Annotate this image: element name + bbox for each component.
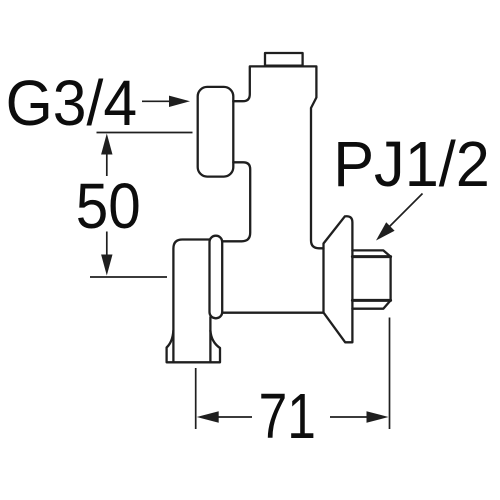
nipple top chamfer line bbox=[352, 255, 390, 258]
50 down arrowhead bbox=[101, 255, 112, 276]
PJ1/2 leader arrowhead bbox=[376, 222, 395, 240]
svg-text:G3/4: G3/4 bbox=[6, 67, 138, 139]
valve body bottom edge bbox=[222, 312, 323, 314]
svg-text:71: 71 bbox=[259, 380, 316, 452]
PJ1/2 leader line bbox=[385, 194, 423, 232]
50 bottom extension line bbox=[90, 276, 167, 278]
50 dim shaft upper bbox=[106, 153, 108, 177]
50 up arrowhead bbox=[101, 134, 112, 155]
71 dim shaft right bbox=[330, 416, 369, 418]
flange ring collar bbox=[210, 236, 223, 319]
71 left arrowhead bbox=[197, 411, 219, 423]
foot outline bbox=[167, 240, 220, 363]
G3/4 arrow shaft bbox=[142, 100, 171, 102]
foot inner right edge bbox=[209, 331, 211, 363]
foot inner left edge bbox=[172, 331, 174, 363]
50 dim shaft lower bbox=[106, 232, 108, 257]
valve body left lower edge bbox=[222, 162, 250, 241]
50 top extension line bbox=[97, 132, 193, 134]
G3/4 arrowhead bbox=[169, 96, 190, 107]
PJ flange (bell) bbox=[324, 216, 353, 342]
71 dim shaft left bbox=[216, 416, 252, 418]
PJ1/2 threaded nipple outline bbox=[352, 250, 390, 308]
G3/4 port capsule bbox=[198, 87, 234, 177]
top cap bbox=[265, 53, 303, 66]
nipple bottom chamfer line bbox=[352, 299, 390, 302]
71 right arrowhead bbox=[367, 411, 389, 423]
71 right extension line bbox=[389, 318, 391, 430]
svg-text:50: 50 bbox=[76, 170, 141, 242]
svg-text:PJ1/2: PJ1/2 bbox=[333, 128, 490, 200]
valve body upper outline bbox=[233, 66, 323, 248]
71 left extension line bbox=[195, 368, 197, 429]
